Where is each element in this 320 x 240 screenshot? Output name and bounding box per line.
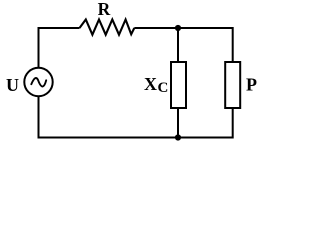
svg-text:U: U (6, 75, 19, 95)
node junction (top) (175, 25, 181, 31)
load P (box) (225, 62, 240, 108)
svg-text:R: R (98, 0, 111, 19)
capacitive reactance X_C (box) (171, 62, 186, 108)
wire (177, 108, 179, 138)
wire (39, 97, 233, 138)
wire (39, 28, 80, 68)
svg-text:P: P (246, 75, 257, 95)
node junction (bottom) (175, 134, 181, 140)
svg-text:XC: XC (144, 74, 168, 96)
voltage source U (24, 68, 52, 96)
wire (177, 28, 179, 62)
wire (134, 28, 232, 62)
resistor R (80, 20, 135, 35)
